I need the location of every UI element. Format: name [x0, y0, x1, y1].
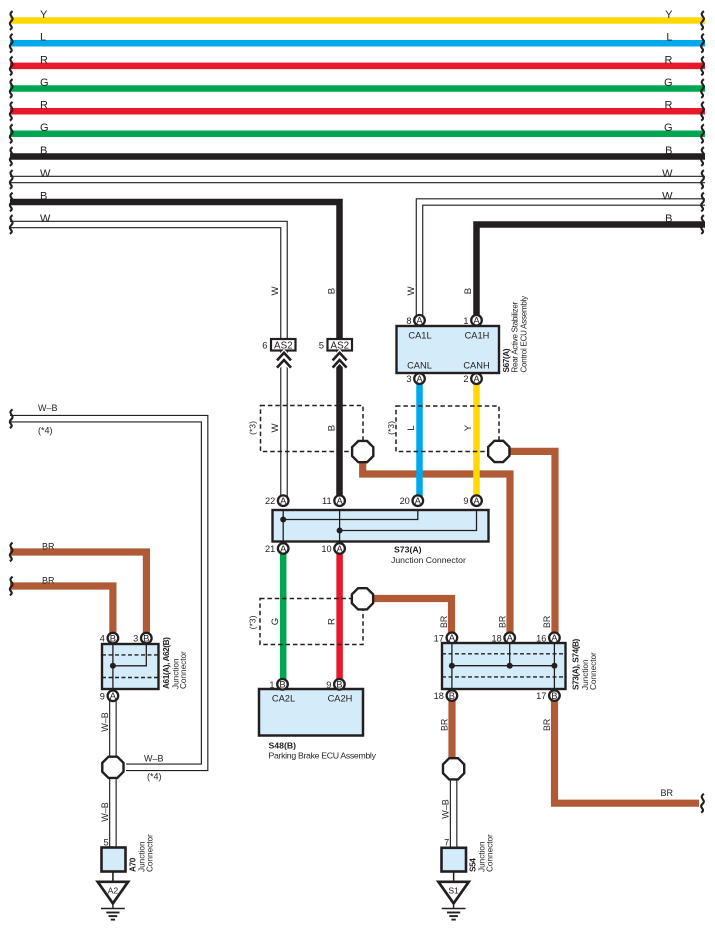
svg-text:B: B: [40, 145, 47, 157]
junction connector S73(A): [273, 510, 489, 565]
svg-text:Connector: Connector: [589, 652, 598, 690]
svg-text:A: A: [336, 543, 343, 554]
svg-text:3: 3: [133, 634, 138, 644]
pin 11 A of S73: [322, 495, 345, 506]
svg-text:R: R: [326, 618, 337, 625]
label W rotated above S67 pin 8: [406, 286, 417, 296]
shield box (dashed) around G/R pair with (*3): [248, 599, 364, 645]
shield box (dashed) around W/B pair with (*3): [248, 406, 364, 452]
svg-text:G: G: [40, 122, 49, 134]
svg-text:A61(A), A62(B): A61(A), A62(B): [161, 637, 171, 689]
wire Y (yellow) S67 CANH pin 2 to S73 pin 9: [473, 374, 480, 500]
svg-text:CA2H: CA2H: [328, 694, 353, 704]
svg-text:B: B: [40, 190, 47, 202]
svg-text:(*4): (*4): [38, 426, 53, 436]
pin 22 A of S73: [265, 495, 289, 506]
svg-text:B: B: [665, 213, 672, 225]
svg-text:Parking Brake ECU Assembly: Parking Brake ECU Assembly: [269, 751, 377, 761]
svg-text:CANL: CANL: [407, 361, 432, 371]
shield box (dashed) around L/Y pair with (*3): [386, 406, 499, 452]
pin 8 A of S67: [406, 315, 424, 326]
pin 2 A of S67: [463, 373, 481, 384]
svg-text:W–B: W–B: [100, 712, 110, 732]
svg-text:A: A: [336, 495, 343, 506]
svg-text:17: 17: [536, 691, 546, 701]
svg-text:Y: Y: [665, 9, 673, 21]
wire W-B from splice J4 to A70 junction connector: [100, 778, 113, 849]
wire BR (brown) from shield octagon J1 to S73/S74 pin 18: [363, 462, 510, 638]
wire B (black) from right edge down to S67(A) pin 1: [477, 213, 706, 320]
svg-text:CA1L: CA1L: [408, 331, 431, 341]
svg-text:A: A: [416, 373, 423, 384]
svg-text:9: 9: [463, 496, 468, 506]
svg-text:8: 8: [406, 316, 411, 326]
wire W (white) from left edge down to AS2 connector 6 and S73(A) pin 22: [10, 213, 284, 499]
svg-text:Connector: Connector: [179, 651, 188, 689]
svg-text:A70: A70: [127, 857, 137, 872]
svg-text:Y: Y: [463, 424, 474, 431]
svg-text:S48(B): S48(B): [269, 740, 297, 750]
svg-text:W: W: [662, 190, 673, 202]
wire G (green) horizontal y=133.8: [10, 122, 705, 134]
svg-text:B: B: [336, 679, 342, 690]
wire BR (brown) from shield octagon J2 to S73/S74 pin 16: [509, 451, 555, 638]
wire W-B from splice J5 to S54 junction connector: [441, 780, 454, 850]
svg-text:B: B: [143, 633, 149, 644]
svg-text:S73(A): S73(A): [394, 545, 422, 555]
svg-text:B: B: [279, 679, 285, 690]
pin 20 A of S73: [400, 495, 424, 506]
wire BR (brown) from S73/S74 pin 17B to right edge: [542, 699, 699, 803]
wire W-B (white-black) from left edge to splice octagon J4: [10, 403, 205, 782]
svg-text:1: 1: [463, 316, 468, 326]
svg-text:Control ECU Assembly: Control ECU Assembly: [520, 296, 529, 373]
wire R (red) horizontal y=65.9: [10, 54, 705, 66]
svg-text:W: W: [40, 213, 51, 225]
wire B (black) from left edge down to AS2 connector 5 and S73(A) pin 11: [10, 190, 340, 501]
wire R (red) S73 pin 10 to S48 CA2H pin 9: [336, 549, 343, 684]
svg-text:A: A: [551, 632, 558, 643]
svg-text:R: R: [665, 100, 673, 112]
svg-text:2: 2: [463, 374, 468, 384]
svg-text:A: A: [280, 543, 287, 554]
wire BR (brown) from left edge to A61 pin 3: [10, 541, 146, 638]
junction connector A70: [102, 834, 155, 882]
svg-text:A: A: [110, 690, 117, 701]
wire R (red) horizontal y=111.2: [10, 100, 705, 112]
wire W (white) horizontal y=179.5: [10, 168, 705, 180]
inline connector AS2 pin 6: [262, 339, 295, 368]
svg-text:R: R: [40, 54, 48, 66]
pin 3 B of A61: [133, 633, 151, 644]
pin 3 A of S67: [406, 373, 424, 384]
svg-text:CA2L: CA2L: [272, 694, 295, 704]
svg-text:BR: BR: [542, 616, 552, 628]
svg-text:Connector: Connector: [146, 834, 155, 872]
svg-text:B: B: [110, 633, 116, 644]
pin 18 B of S73/S74: [434, 690, 458, 701]
svg-text:R: R: [40, 100, 48, 112]
svg-text:20: 20: [400, 496, 410, 506]
svg-text:G: G: [664, 77, 673, 89]
wire BR (brown) from left edge to A61 pin 4: [10, 575, 113, 638]
shield ground octagon J3: [352, 588, 373, 609]
svg-text:21: 21: [265, 544, 275, 554]
svg-text:A: A: [473, 495, 480, 506]
svg-text:Y: Y: [40, 9, 48, 21]
svg-text:5: 5: [319, 340, 324, 351]
svg-text:R: R: [665, 54, 673, 66]
svg-text:17: 17: [434, 633, 444, 643]
pin 4 B of A61: [100, 633, 118, 644]
wire L (blue) horizontal y=43.2: [10, 32, 705, 44]
svg-text:B: B: [665, 145, 672, 157]
svg-text:A: A: [415, 495, 422, 506]
pin 10 A of S73: [321, 543, 345, 554]
svg-text:L: L: [666, 32, 672, 44]
svg-text:(*3): (*3): [248, 421, 258, 435]
svg-text:L: L: [406, 425, 417, 431]
pin 16 A of S73/S74: [536, 632, 560, 643]
pin 9 B of S48: [326, 679, 344, 690]
splice octagon J5: [443, 758, 464, 779]
svg-text:W: W: [270, 423, 281, 433]
svg-text:6: 6: [262, 340, 267, 351]
shield ground octagon J2: [488, 441, 509, 462]
label W rotated above AS2 connector 6: [270, 286, 281, 296]
pin 9 A of S73: [463, 495, 481, 506]
svg-text:22: 22: [265, 496, 275, 506]
svg-text:BR: BR: [439, 719, 449, 731]
svg-text:BR: BR: [42, 541, 55, 551]
svg-text:AS2: AS2: [274, 340, 293, 351]
svg-text:W: W: [270, 286, 281, 296]
svg-text:Junction Connector: Junction Connector: [391, 555, 466, 565]
pin 17 A of S73/S74: [434, 632, 458, 643]
svg-text:16: 16: [536, 633, 546, 643]
pin 1 B of S48: [269, 679, 287, 690]
svg-text:W–B: W–B: [100, 802, 110, 822]
wire L (blue) S67 CANL pin 3 to S73 pin 20: [416, 374, 423, 500]
svg-text:B: B: [463, 288, 474, 294]
svg-text:W–B: W–B: [441, 799, 451, 819]
label B rotated above S67 pin 1: [463, 288, 474, 294]
svg-text:BR: BR: [542, 719, 552, 731]
pin 21 A of S73: [265, 543, 289, 554]
junction connector S54: [442, 834, 495, 882]
pin 18 A of S73/S74: [491, 632, 515, 643]
svg-text:A: A: [473, 373, 480, 384]
svg-text:1: 1: [269, 680, 274, 690]
shield ground octagon J1: [352, 441, 373, 462]
svg-text:G: G: [270, 618, 281, 625]
wire Y (yellow) horizontal y=20.5: [10, 9, 705, 21]
inline connector AS2 pin 5: [319, 339, 352, 368]
wire BR (brown) from S73/S74 pin 18B to splice octagon J5: [439, 699, 452, 760]
svg-text:L: L: [40, 32, 46, 44]
wire W-B from A61 pin 9 to splice J4: [100, 700, 113, 758]
svg-text:G: G: [40, 77, 49, 89]
svg-text:18: 18: [491, 633, 501, 643]
svg-text:Rear Active Stabilizer: Rear Active Stabilizer: [511, 301, 520, 372]
svg-text:W: W: [40, 168, 51, 180]
svg-text:9: 9: [100, 691, 105, 701]
svg-text:A: A: [473, 315, 480, 326]
svg-text:CANH: CANH: [463, 361, 489, 371]
svg-text:A2: A2: [108, 885, 119, 895]
wire W (white) from right edge down to S67(A) pin 8: [420, 190, 706, 318]
svg-text:W–B: W–B: [38, 403, 58, 413]
svg-text:BR: BR: [439, 616, 449, 628]
svg-text:B: B: [326, 425, 337, 431]
svg-text:A: A: [449, 632, 456, 643]
svg-text:S1: S1: [448, 885, 459, 895]
svg-text:A: A: [416, 315, 423, 326]
svg-text:A: A: [507, 632, 514, 643]
svg-text:G: G: [664, 122, 673, 134]
svg-text:5: 5: [103, 838, 108, 848]
ECU S48(B) Parking Brake ECU Assembly: [259, 689, 377, 761]
svg-text:(*3): (*3): [248, 615, 258, 629]
svg-text:S67(A): S67(A): [501, 348, 511, 372]
svg-text:B: B: [449, 690, 455, 701]
ECU S67(A) Rear Active Stabilizer Control ECU Assembly: [397, 296, 529, 373]
svg-text:10: 10: [321, 544, 331, 554]
wire G (green) horizontal y=88.5: [10, 77, 705, 89]
svg-text:(*3): (*3): [386, 421, 396, 435]
svg-text:BR: BR: [660, 788, 673, 798]
pin 17 B of S73/S74: [536, 690, 560, 701]
svg-text:B: B: [326, 288, 337, 294]
svg-text:BR: BR: [497, 616, 507, 628]
wire G (green) S73 pin 21 to S48 CA2L pin 1: [280, 549, 287, 684]
svg-text:B: B: [551, 690, 557, 701]
svg-text:4: 4: [100, 634, 105, 644]
svg-text:W: W: [662, 168, 673, 180]
svg-text:3: 3: [406, 374, 411, 384]
svg-text:A: A: [280, 495, 287, 506]
pin 9 A of A61: [100, 690, 118, 701]
svg-text:BR: BR: [42, 575, 55, 585]
wire BR (brown) from shield octagon J3 to S73/S74 pin 17: [374, 599, 452, 639]
ground S1: [438, 872, 468, 920]
svg-text:11: 11: [322, 496, 332, 506]
svg-text:(*4): (*4): [147, 772, 162, 782]
svg-text:S73(A), S74(B): S73(A), S74(B): [571, 638, 581, 690]
pin 1 A of S67: [463, 315, 481, 326]
svg-text:9: 9: [326, 680, 331, 690]
svg-text:18: 18: [434, 691, 444, 701]
junction connector A61(A), A62(B): [102, 637, 188, 689]
svg-text:CA1H: CA1H: [465, 331, 490, 341]
svg-text:7: 7: [444, 838, 449, 848]
svg-text:Connector: Connector: [486, 834, 495, 872]
svg-text:W: W: [406, 286, 417, 296]
svg-text:S54: S54: [467, 858, 477, 872]
splice octagon J4: [102, 757, 123, 778]
svg-text:W–B: W–B: [144, 754, 164, 764]
junction connector S73(A), S74(B): [442, 638, 598, 690]
label B rotated above AS2 connector 5: [326, 288, 337, 294]
wire B (black) horizontal y=156.5: [10, 145, 705, 157]
ground A2: [98, 872, 128, 920]
